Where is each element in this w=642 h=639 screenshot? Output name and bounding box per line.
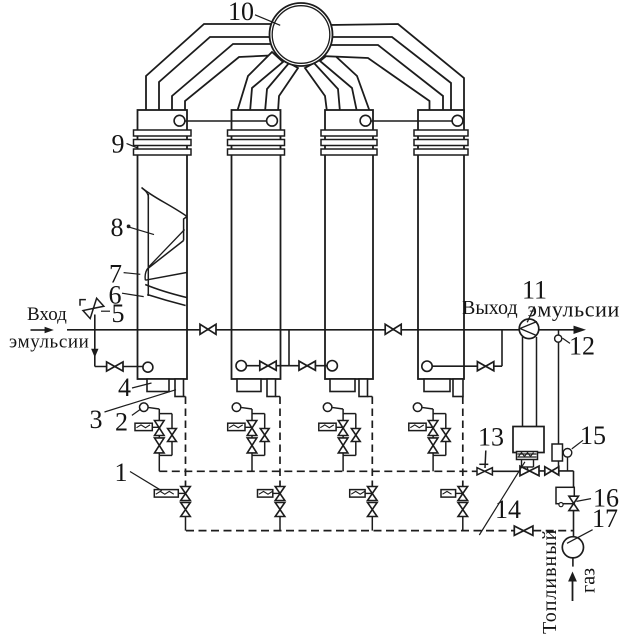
valve pilot gas D column 4 [458, 487, 468, 494]
wire upper gas header dashed [159, 470, 476, 472]
wire burner gas piping column 2 [251, 409, 253, 455]
vessel burner box 4 column 2 [237, 379, 261, 392]
valve burner primary A column 3 [338, 421, 348, 429]
component 1 flame arrestor upper column 2 [245, 426, 252, 428]
svg-text:2: 2 [115, 408, 128, 437]
vessel burner stub 3 column 3 [359, 379, 368, 397]
wire separator outlet [521, 460, 523, 468]
coil 8 inside column1 [142, 188, 188, 217]
wire lower gas header dashed [186, 530, 514, 532]
vessel burner box 4 column 4 [424, 379, 450, 392]
svg-text:газ: газ [578, 568, 600, 593]
vessel 10 top collector [270, 3, 333, 66]
node sample point 12 [555, 335, 562, 342]
wire top transfer pipe column1 inner [172, 44, 280, 112]
valve burner secondary column 4 [441, 429, 450, 436]
svg-text:14: 14 [495, 495, 521, 524]
component 1 flame arrestor upper column 1 [152, 426, 159, 428]
wire instrument line 12 [558, 330, 560, 471]
node pilot 2 column 4 [422, 407, 433, 409]
wire pipes from pump 11 down to separator [522, 337, 524, 428]
wire top transfer pipe column3 right [320, 52, 370, 112]
svg-text:Вход: Вход [27, 304, 67, 325]
component 15 rotameter [552, 444, 563, 461]
coil 7 diagonal tubes [147, 241, 183, 270]
svg-text:13: 13 [478, 423, 504, 452]
resistor rings 9 column 2 [228, 130, 285, 136]
wire gas riser dashed column 3 [368, 396, 373, 398]
valve bypass column4 [477, 362, 485, 371]
wire top transfer pipe column4 inner [322, 45, 443, 112]
svg-text:эмульсии: эмульсии [528, 297, 620, 322]
valve under separator [520, 466, 530, 476]
component 1 flame arrestor upper column 4 [426, 426, 433, 428]
valve 13 gas header [484, 451, 487, 469]
coil 6 lower turns [145, 269, 147, 280]
valve burner secondary column 1 [168, 429, 177, 436]
wire gas riser dashed column 2 [276, 396, 281, 398]
wire bypass to column1 [95, 366, 143, 368]
valve 5 inlet control [80, 300, 86, 306]
valve bypass column3 [299, 361, 307, 370]
wire drop to regulator 16 [573, 471, 575, 487]
svg-text:Выход: Выход [462, 297, 518, 319]
component 1 flame arrestor lower column 2 [273, 492, 280, 494]
valve burner secondary column 3 [351, 429, 360, 436]
valve burner primary B column 1 [155, 438, 165, 446]
valve pilot gas E column 4 [458, 503, 468, 510]
valve burner secondary column 2 [260, 429, 269, 436]
vessel heater column 3 body [325, 110, 373, 379]
pump 11 [519, 319, 539, 339]
svg-text:9: 9 [112, 130, 125, 159]
wire top transfer pipe column4 outer [330, 24, 464, 112]
valve burner primary A column 4 [428, 421, 438, 429]
node gauge near 15 [567, 457, 569, 471]
valve pilot gas D column 2 [275, 487, 285, 494]
wire riser right of column4 [501, 330, 503, 366]
node sight glass column4 [422, 361, 432, 371]
wire head link column3-column4 [366, 120, 458, 122]
vessel burner stub 3 column 2 [267, 379, 276, 397]
node pilot 2 column 1 [148, 407, 159, 409]
svg-text:7: 7 [109, 260, 122, 289]
component 1 flame arrestor lower column 4 [456, 492, 463, 494]
valve burner primary A column 2 [247, 421, 257, 429]
resistor rings 9 column 4 [414, 130, 468, 136]
wire pilot drop column 1 [185, 517, 187, 531]
resistor rings 9 column 1 [134, 130, 192, 136]
vessel heater column 4 body [418, 110, 464, 379]
wire top transfer pipe column2 left [237, 52, 283, 112]
valve pilot gas E column 1 [181, 503, 191, 510]
component 1 flame arrestor upper column 3 [336, 426, 343, 428]
valve between column3 and column4 [385, 324, 393, 334]
vessel heater column 2 body [232, 110, 281, 379]
wire bypass column2-column3 [246, 365, 327, 367]
wire pilot drop column 4 [462, 517, 464, 531]
vessel separator 14 [513, 427, 544, 453]
wire gas riser dashed column 4 [462, 397, 464, 487]
wire burner gas piping column 3 [342, 409, 344, 455]
arrow emulsion outlet [574, 326, 587, 334]
wire main emulsion pipe [67, 329, 575, 331]
vessel heater column 1 body [138, 110, 188, 379]
svg-text:3: 3 [90, 405, 103, 434]
node head port column 2 [267, 115, 278, 126]
valve burner primary B column 4 [428, 438, 438, 446]
valve burner primary B column 3 [338, 438, 348, 446]
node pilot 2 column 2 [241, 407, 252, 409]
node sight glass column3 [327, 361, 337, 371]
svg-text:12: 12 [569, 332, 595, 361]
node head port column 1 [174, 115, 185, 126]
meter 17 fuel gas [562, 537, 583, 558]
component 1 flame arrestor lower column 3 [365, 492, 372, 494]
vessel burner stub 3 column 1 [175, 379, 184, 397]
svg-text:15: 15 [580, 421, 606, 450]
valve bypass column1 [107, 362, 115, 371]
component 16 pressure regulator [556, 487, 574, 503]
valve burner primary B column 2 [247, 438, 257, 446]
wire burner gas piping column 1 [158, 409, 160, 455]
svg-text:10: 10 [228, 0, 254, 26]
node head port column 3 [360, 115, 371, 126]
wire top transfer pipe column1 outer [146, 24, 271, 112]
wire top transfer pipe column3 left [305, 63, 340, 112]
valve lower header [514, 526, 523, 535]
wire pilot drop column 2 [279, 517, 281, 531]
wire riser between column2 and column3 [288, 330, 290, 366]
node head port column 4 [452, 115, 463, 126]
component separator bottom screen [517, 452, 538, 460]
wire pilot drop column 3 [371, 517, 373, 531]
valve before regulator [545, 467, 552, 475]
node pilot 2 column 3 [332, 407, 343, 409]
valve burner primary A column 1 [155, 421, 165, 429]
valve pilot gas E column 2 [275, 503, 285, 510]
wire head link column1-column2 [180, 120, 273, 122]
component 1 flame arrestor lower column 1 [178, 492, 185, 494]
node sight glass column2 [236, 361, 246, 371]
wire burner gas piping column 4 [432, 409, 434, 455]
wire inlet riser [94, 315, 96, 367]
svg-text:эмульсии: эмульсии [9, 332, 89, 353]
valve between column1 and column2 [200, 324, 208, 334]
wire bypass column4 [432, 365, 502, 367]
svg-text:Топливный: Топливный [539, 529, 561, 634]
wire gas line to regulator [492, 470, 520, 472]
resistor rings 9 column 3 [321, 130, 377, 136]
svg-text:1: 1 [115, 458, 128, 487]
svg-text:17: 17 [592, 504, 618, 533]
vessel burner box 4 column 3 [330, 379, 355, 392]
vessel burner box 4 column 1 [147, 379, 169, 392]
valve pilot gas E column 3 [368, 503, 378, 510]
svg-text:4: 4 [118, 373, 131, 402]
wire gas riser dashed column 1 [184, 396, 186, 398]
arrow inlet flow [31, 329, 47, 331]
node sight glass column1 [143, 362, 153, 372]
valve pilot gas D column 3 [368, 487, 378, 494]
wire top transfer pipe column2 right [265, 63, 298, 112]
vessel burner stub 3 column 4 [453, 379, 463, 397]
svg-text:8: 8 [111, 213, 124, 242]
arrow downward on inlet riser [91, 349, 98, 358]
valve pilot gas D column 1 [181, 487, 191, 494]
arrow fuel gas inlet [572, 581, 574, 601]
valve bypass column2 [260, 361, 268, 370]
